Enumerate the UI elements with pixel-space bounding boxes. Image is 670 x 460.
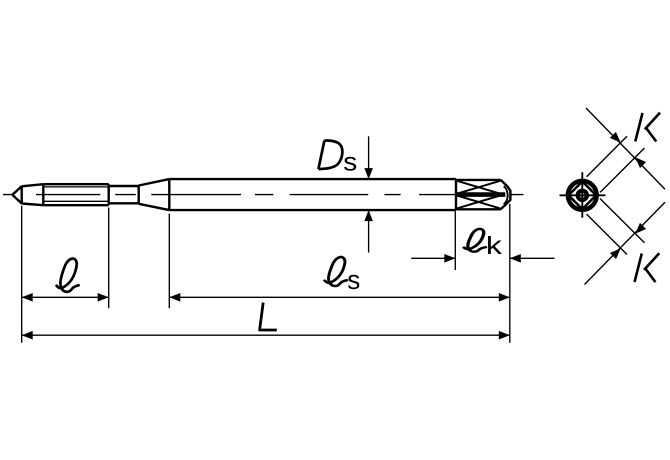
arrowheads of dimension l bbox=[22, 293, 109, 302]
square end cap outline bbox=[501, 180, 511, 209]
label l (script ell) bbox=[57, 259, 79, 292]
extension line at thread end bbox=[108, 208, 110, 309]
label lk (script ell part) bbox=[464, 229, 486, 252]
K extension line upper-left face bbox=[587, 136, 627, 176]
taper cone to shank bbox=[139, 179, 170, 210]
dimension line lk (square length, arrows outside) bbox=[411, 257, 554, 259]
arrowheads of dimension K upper bbox=[610, 132, 646, 168]
dimension line K upper bbox=[586, 108, 665, 189]
K extension line upper-right face bbox=[600, 199, 644, 243]
dimension line K lower bbox=[585, 202, 666, 284]
arrowheads of dimension K lower bbox=[610, 223, 646, 259]
label K upper bbox=[635, 113, 660, 142]
end view square drive (rotated 45deg) bbox=[569, 182, 597, 210]
square drive section bbox=[456, 180, 501, 209]
extension line at shank start bbox=[168, 214, 170, 309]
arrowheads of dimension lk bbox=[444, 254, 521, 263]
shank bbox=[169, 179, 456, 210]
thread root lines bbox=[44, 187, 108, 201]
svg-text:s: s bbox=[343, 146, 357, 176]
dimension line ls (shank length) bbox=[169, 296, 510, 298]
square end rounded-corner arc bbox=[504, 186, 508, 204]
arrowheads of dimension Ds bbox=[364, 168, 373, 221]
centerline (main axis, dash-dot) bbox=[3, 194, 524, 196]
svg-text:k: k bbox=[486, 232, 503, 260]
end view crosshair centerlines bbox=[560, 172, 606, 217]
K extension line lower-right face bbox=[600, 148, 644, 192]
label L bbox=[260, 303, 277, 330]
tap point cone bbox=[12, 186, 21, 204]
dimension line Ds (shank diameter) bbox=[368, 136, 370, 252]
svg-text:s: s bbox=[347, 267, 360, 295]
extension line at square start bbox=[454, 211, 456, 270]
end view outer circle (shank circle) bbox=[568, 181, 597, 210]
label Ds (D italic) bbox=[318, 140, 342, 169]
label K lower bbox=[635, 253, 660, 282]
arrowheads of dimension ls bbox=[169, 293, 510, 302]
dimension line l (thread length) bbox=[22, 296, 109, 298]
square center edge bar bbox=[457, 192, 505, 197]
extension line at tap point bbox=[21, 206, 23, 343]
label ls (script ell part) bbox=[325, 257, 347, 286]
arrowheads of dimension L bbox=[22, 331, 510, 340]
K extension line lower-left face bbox=[587, 214, 627, 254]
dimension line L (overall length) bbox=[22, 334, 510, 336]
chamfer lead cone bbox=[22, 184, 44, 205]
square face X marks bbox=[457, 181, 500, 209]
extension line at tap end bbox=[509, 204, 511, 343]
neck section bbox=[109, 185, 139, 204]
threaded section outline bbox=[43, 184, 108, 205]
end view center hole bbox=[578, 191, 587, 200]
